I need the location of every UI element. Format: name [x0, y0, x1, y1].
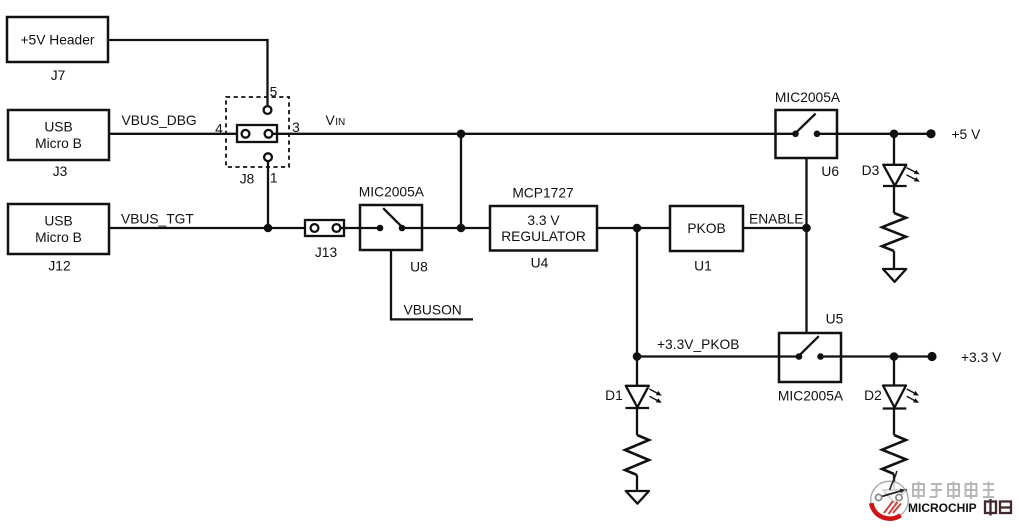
svg-text:D2: D2: [864, 388, 882, 403]
svg-text:U8: U8: [410, 260, 428, 275]
svg-text:IN: IN: [335, 117, 345, 128]
wire +5V junction down to D3: [893, 134, 895, 165]
wire D3 to R: [893, 186, 895, 213]
resistor (D1 chain): [625, 435, 649, 475]
ground (D1 chain): [626, 491, 649, 504]
ground (D3 chain): [883, 269, 906, 282]
LED D1: [626, 386, 662, 408]
wire J7 to J8 pin5: [108, 40, 268, 106]
node 3.3V output junction: [633, 224, 642, 233]
node regulator input junction: [457, 224, 466, 233]
node VBUS_TGT junction: [264, 224, 273, 233]
load switch U5 box: [779, 333, 841, 382]
wire J8 pin1 down to VBUS_TGT node: [267, 161, 269, 228]
connector J7 box: [7, 17, 108, 62]
svg-text:Micro B: Micro B: [35, 136, 82, 151]
svg-text:MIC2005A: MIC2005A: [778, 388, 844, 403]
wire 3.3V junction down to +3.3V_PKOB node: [636, 228, 638, 357]
wire VIN run from J8 pin3 to U6: [272, 133, 775, 135]
ground (D2 chain): [883, 490, 906, 503]
svg-text:Micro B: Micro B: [35, 230, 82, 245]
connector J3 box: [8, 110, 109, 160]
watermark text Microchip 社区: [908, 499, 1011, 516]
resistor (D3 chain): [882, 213, 906, 251]
connector J12 box: [8, 204, 109, 254]
svg-text:+3.3 V: +3.3 V: [961, 350, 1002, 365]
svg-text:J3: J3: [53, 164, 68, 179]
node VIN junction: [457, 130, 466, 139]
svg-text:J12: J12: [48, 258, 70, 273]
svg-text:J7: J7: [51, 68, 66, 83]
node +3.3V terminal dot: [927, 352, 936, 361]
wire U4 to U1: [597, 227, 670, 229]
wire ENABLE from U1 to U6/U5 rail: [743, 227, 807, 229]
wire R to ground (D3 chain): [893, 251, 895, 269]
svg-text:+5V Header: +5V Header: [20, 32, 94, 47]
svg-text:MCP1727: MCP1727: [512, 186, 573, 201]
resistor (D2 chain): [882, 435, 906, 474]
wire J13 to U8: [340, 227, 360, 229]
svg-text:USB: USB: [44, 214, 72, 229]
wire U5 to +3.3V terminal: [841, 355, 932, 357]
wire +3.3V_PKOB junction down to D1: [636, 357, 638, 387]
wire +3.3V junction down to D2: [893, 357, 895, 387]
svg-text:VBUSON: VBUSON: [404, 303, 462, 318]
svg-text:REGULATOR: REGULATOR: [501, 229, 586, 244]
jumper J8 shunt body: [237, 125, 277, 142]
wire D2 to R: [893, 409, 895, 436]
svg-text:J13: J13: [315, 245, 338, 260]
svg-text:ENABLE: ENABLE: [749, 211, 803, 226]
jumper J8 dashed outline: [226, 97, 289, 167]
svg-text:U4: U4: [531, 256, 549, 271]
svg-text:D1: D1: [605, 388, 623, 403]
node +5V terminal dot: [926, 129, 935, 138]
svg-text:+5 V: +5 V: [952, 127, 982, 142]
svg-text:MICROCHIP: MICROCHIP: [908, 501, 977, 515]
svg-text:3.3 V: 3.3 V: [527, 213, 560, 228]
svg-text:V: V: [326, 113, 336, 128]
regulator U4 box: [490, 206, 597, 251]
wire U6 to +5V terminal: [837, 133, 931, 135]
wire U6 enable down to U5: [805, 158, 807, 333]
jumper J8 pin 5 circle: [264, 106, 272, 114]
wire +3.3V_PKOB to U5: [637, 355, 779, 357]
svg-text:VBUS_TGT: VBUS_TGT: [121, 211, 194, 226]
svg-text:U6: U6: [821, 164, 839, 179]
load switch U8 box: [360, 205, 422, 250]
wire R to ground (D2 chain): [893, 474, 895, 490]
load switch U6 box: [776, 110, 838, 158]
wire R to ground (D1 chain): [636, 475, 638, 491]
svg-text:1: 1: [270, 170, 278, 185]
wire J12 to J13: [109, 227, 311, 229]
svg-text:5: 5: [270, 84, 278, 99]
block U1 PKOB box: [670, 206, 743, 251]
svg-text:+3.3V_PKOB: +3.3V_PKOB: [657, 337, 739, 352]
svg-text:J8: J8: [240, 172, 255, 187]
LED D3: [883, 165, 920, 186]
jumper J13 body: [305, 220, 344, 236]
svg-text:MIC2005A: MIC2005A: [775, 90, 841, 105]
jumper J8 pin 1 circle: [264, 153, 272, 161]
svg-text:VBUS_DBG: VBUS_DBG: [122, 113, 197, 128]
wire VIN junction down to regulator input: [460, 134, 462, 228]
node ENABLE junction: [802, 224, 811, 233]
node +3.3V junction: [890, 352, 899, 361]
node +3.3V_PKOB junction: [633, 352, 642, 361]
LED D2: [883, 386, 919, 409]
jumper J8 pin 4 circle: [242, 130, 250, 138]
wire U8 to U4: [422, 227, 490, 229]
jumper J8 pin 3 circle: [265, 130, 273, 138]
jumper J13 right circle: [333, 224, 341, 232]
jumper J13 left circle: [311, 224, 319, 232]
svg-text:D3: D3: [862, 163, 880, 178]
svg-text:USB: USB: [44, 120, 72, 135]
svg-text:U5: U5: [826, 311, 844, 326]
svg-text:PKOB: PKOB: [687, 221, 725, 236]
svg-text:MIC2005A: MIC2005A: [359, 184, 425, 199]
svg-text:4: 4: [215, 121, 223, 136]
wire D1 to R: [636, 408, 638, 435]
node +5V junction: [890, 130, 899, 139]
wire J3 to J8 pin4: [109, 133, 242, 135]
watermark logo circle: [871, 471, 909, 519]
svg-text:U1: U1: [694, 258, 712, 273]
wire U8 to VBUSON flag: [391, 250, 473, 319]
watermark text 电子发烧友 (pseudo CJK): [913, 482, 994, 500]
